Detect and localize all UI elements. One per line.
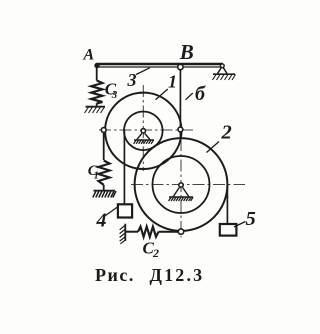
svg-text:4: 4 — [96, 210, 107, 232]
svg-text:2: 2 — [152, 246, 159, 260]
svg-text:1: 1 — [168, 72, 177, 92]
svg-text:B: B — [179, 40, 194, 64]
svg-text:5: 5 — [246, 208, 256, 230]
svg-text:3: 3 — [127, 70, 137, 90]
svg-text:б: б — [195, 83, 206, 105]
svg-text:Рис.: Рис. — [95, 265, 135, 285]
svg-text:2: 2 — [221, 122, 232, 144]
svg-text:3: 3 — [111, 89, 118, 101]
svg-text:Д12.3: Д12.3 — [150, 265, 205, 285]
svg-text:A: A — [83, 47, 95, 64]
svg-text:1: 1 — [94, 171, 99, 182]
